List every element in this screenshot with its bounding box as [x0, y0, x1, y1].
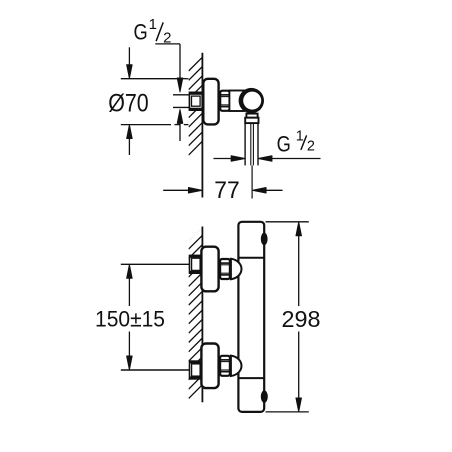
- escutcheon rosette (top view): [203, 79, 218, 125]
- inner square (upper): [192, 258, 201, 270]
- inner square (lower): [192, 364, 201, 376]
- escutcheon rosette (lower): [201, 344, 218, 389]
- dim Ø70 arrow lower: [128, 133, 130, 155]
- dim G1/2 outlet pipe arrows: [214, 158, 233, 160]
- outlet pipe (G1/2): [244, 123, 246, 165]
- dim Ø70 extension line top: [121, 78, 179, 80]
- supply pipe stub behind wall (top view): [173, 94, 189, 96]
- svg-text:Ø70: Ø70: [108, 89, 149, 117]
- wall union square (lower): [190, 361, 203, 379]
- dim 150±15 line and arrows: [128, 278, 130, 306]
- leader G1/2 top to wall fitting: [155, 43, 180, 45]
- svg-text:G: G: [134, 19, 148, 44]
- thermostat body bar: [238, 222, 264, 412]
- body joint line upper: [238, 257, 264, 259]
- knob button lower (on body edge): [261, 390, 268, 402]
- union nut (upper): [220, 259, 230, 279]
- dim 298 extension top: [266, 221, 309, 223]
- dim 150±15 extension / supply centerline lower: [121, 369, 190, 371]
- G1/2 thread dim arrow lower: [177, 109, 183, 123]
- svg-text:298: 298: [282, 306, 321, 332]
- G1/2 thread dim arrow upper: [177, 78, 183, 92]
- svg-text:150±15: 150±15: [95, 306, 165, 331]
- escutcheon rosette (upper): [201, 247, 218, 292]
- svg-text:77: 77: [214, 177, 239, 204]
- dim 150±15 extension / supply centerline upper: [121, 263, 190, 265]
- dim Ø70 arrow upper: [128, 47, 130, 70]
- valve inlet block (top view): [229, 91, 244, 112]
- wall face line (front view): [201, 227, 203, 403]
- union nut (lower): [220, 356, 230, 376]
- wall face line (top view) / extension for 77 dim: [201, 53, 203, 198]
- knob button upper (on body edge): [261, 233, 268, 246]
- body joint line lower: [238, 377, 264, 379]
- inner square (thread bore, top view): [192, 96, 201, 106]
- svg-text:G: G: [277, 131, 291, 156]
- pipe centerline extension for 77 dim: [251, 166, 253, 199]
- wall union square (upper): [190, 255, 203, 273]
- fraction slash (top label): [156, 22, 163, 41]
- inlet bulge upper (S-union ball joint): [231, 259, 242, 279]
- svg-text:1: 1: [296, 128, 304, 144]
- dim 298 extension bottom: [266, 411, 309, 413]
- dim Ø70 extension line bottom: [121, 124, 171, 126]
- union nut (top view): [220, 91, 229, 111]
- valve body circle (handle end, top view): [239, 88, 264, 113]
- outlet collar below circle: [246, 114, 257, 118]
- dim 298 line and arrows: [298, 236, 300, 306]
- inlet bulge lower (S-union ball joint): [231, 356, 242, 376]
- svg-text:2: 2: [307, 139, 315, 155]
- dim 77: [163, 189, 189, 191]
- fraction slash (right label): [301, 135, 307, 150]
- svg-text:1: 1: [149, 16, 157, 33]
- wall union square (top view): [189, 92, 202, 110]
